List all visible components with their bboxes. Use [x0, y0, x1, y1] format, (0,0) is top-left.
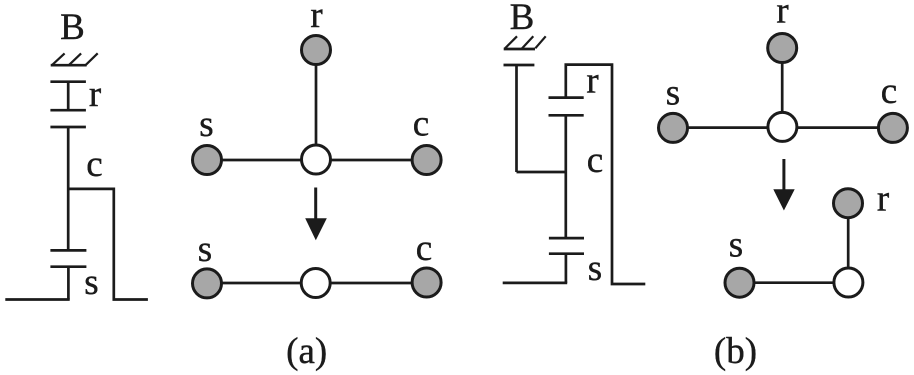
svg-text:r: r	[586, 60, 598, 101]
svg-text:c: c	[416, 228, 432, 269]
node s (gray)	[193, 269, 222, 298]
wire s stem	[67, 267, 70, 300]
svg-text:r: r	[776, 0, 788, 31]
node c (gray)	[878, 113, 907, 142]
ground hatch	[51, 53, 98, 65]
svg-text:c: c	[587, 140, 603, 181]
wire r member stem	[67, 82, 70, 111]
node s (gray)	[659, 113, 688, 142]
wire junction to c	[517, 171, 566, 174]
svg-text:(a): (a)	[286, 331, 327, 372]
svg-text:c: c	[413, 104, 429, 145]
wire r link	[847, 203, 850, 282]
svg-text:B: B	[510, 0, 535, 38]
svg-text:r: r	[877, 179, 889, 220]
node c (gray)	[412, 146, 441, 175]
node carrier (white)	[301, 269, 330, 298]
node carrier (white)	[302, 145, 331, 174]
wire lever s link	[740, 281, 849, 284]
svg-text:s: s	[84, 262, 98, 303]
arrow	[305, 188, 327, 241]
bar (s plate)	[50, 265, 86, 268]
wire c member	[67, 127, 70, 250]
wire lever s-c	[673, 126, 893, 129]
wire r link	[781, 48, 784, 127]
bar (r lower plate)	[50, 109, 86, 112]
svg-text:s: s	[729, 225, 743, 266]
bar (c upper plate)	[50, 126, 86, 129]
svg-text:c: c	[86, 144, 102, 185]
wire lever s-c	[207, 159, 427, 162]
node s (gray)	[193, 146, 222, 175]
wire c member	[564, 115, 567, 238]
wire ground stem	[515, 65, 518, 172]
wire c branch to output	[68, 189, 148, 300]
bar (r plate bottom)	[549, 114, 584, 117]
node carrier (white)	[834, 268, 863, 297]
wire r link	[315, 50, 318, 160]
svg-text:(b): (b)	[714, 331, 757, 372]
wire s output	[503, 282, 568, 285]
arrow	[773, 159, 794, 211]
svg-text:s: s	[588, 248, 602, 289]
svg-text:c: c	[881, 71, 897, 112]
bar (c lower plate)	[549, 237, 584, 240]
wire lever s-c (collapsed)	[207, 282, 427, 285]
bar (c lower plate)	[50, 249, 86, 252]
brake B plate (bar, r side top)	[50, 80, 86, 83]
bar (ground brake plate)	[504, 64, 535, 67]
wire s output	[5, 298, 69, 301]
node r (gray)	[302, 36, 331, 65]
wire s stem	[565, 254, 568, 283]
bar (s plate)	[549, 252, 584, 255]
svg-text:B: B	[60, 7, 85, 48]
node r (gray)	[768, 34, 797, 63]
node c (gray)	[412, 268, 441, 297]
bar (r plate top)	[549, 96, 584, 99]
svg-text:s: s	[666, 73, 680, 114]
svg-text:s: s	[199, 104, 213, 145]
ground hatch	[504, 36, 546, 49]
node s (gray)	[725, 268, 754, 297]
node r (gray)	[834, 189, 863, 218]
node carrier (white)	[768, 112, 797, 141]
svg-text:r: r	[310, 0, 322, 36]
wire r top bracket	[566, 65, 646, 284]
svg-text:r: r	[89, 74, 101, 115]
svg-text:s: s	[198, 229, 212, 270]
